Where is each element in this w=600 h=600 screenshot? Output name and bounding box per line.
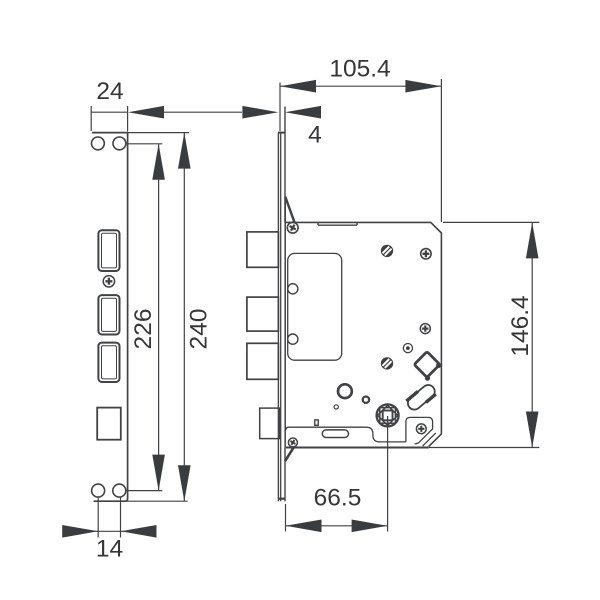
panel circle top (288, 284, 298, 294)
latch slot 1 outer (98, 230, 119, 271)
auxiliary bolt (260, 408, 280, 439)
side faceplate inner line (280, 133, 282, 502)
latch bolt 3 (247, 343, 279, 379)
arrow 66.5 right (352, 520, 388, 533)
arrow 226 up (152, 144, 165, 180)
svg-text:226: 226 (130, 309, 157, 350)
faceplate screw (103, 276, 114, 287)
dim 24 left extension tick (90, 106, 92, 131)
inner panel rounded (288, 253, 342, 360)
spindle follower (377, 404, 399, 426)
latch slot 1 inner (102, 233, 117, 268)
slotted screw top (381, 245, 393, 257)
arrow 4 outside-right (285, 106, 321, 119)
dim 66.5 left extension (285, 504, 287, 532)
dim 24 line (91, 111, 128, 113)
nose triangle edge (284, 197, 286, 223)
arrows side (280, 80, 539, 532)
arrows front (62, 106, 321, 538)
arrow 146.4 down (526, 412, 539, 448)
side faceplate front line (277, 133, 279, 502)
screw hole bottom-right (113, 484, 126, 497)
latch slot 2 outer (98, 295, 119, 334)
arrow 240 down (178, 465, 191, 501)
dim 105.4 left extension (279, 83, 281, 132)
phillips screw bottom-right (416, 424, 426, 434)
svg-text:105.4: 105.4 (329, 55, 390, 82)
arrow 146.4 up (526, 222, 539, 258)
phillips screw bottom-left (288, 438, 297, 447)
svg-text:4: 4 (308, 122, 322, 149)
dim 105.4 right extension (440, 79, 442, 222)
square opening (97, 408, 121, 440)
nose diagonal (latch lever) (285, 197, 294, 223)
side faceplate back line / 4mm extension (284, 107, 286, 223)
faceplate bottom edge (94, 500, 125, 502)
screw hole top-right (113, 137, 126, 150)
svg-text:146.4: 146.4 (507, 295, 534, 356)
horizontal pill slot (322, 430, 348, 438)
tiny circle (334, 405, 338, 409)
dim 14 right extension (120, 497, 122, 537)
phillips screw mid-right (420, 324, 430, 334)
panel circle bottom (288, 334, 298, 344)
arrow 105.4 right (405, 80, 441, 93)
phillips screw top-right (421, 249, 431, 259)
svg-text:240: 240 (186, 309, 213, 350)
lock body left edge (284, 222, 286, 447)
svg-text:24: 24 (96, 78, 123, 105)
inner chamfer echo (423, 433, 436, 446)
dim 226 line (158, 144, 160, 491)
tilted pill (cylinder clip) (404, 381, 439, 414)
dim 105.4 line (280, 85, 441, 87)
faceplate top edge (92, 132, 128, 134)
small thick circle (363, 397, 369, 403)
dim 240 top extension (128, 132, 189, 134)
lever below body (285, 446, 294, 461)
dim 240 bottom extension (94, 500, 188, 502)
latch slot 2 inner (102, 298, 117, 331)
phillips screw top-left (287, 222, 298, 233)
svg-text:66.5: 66.5 (314, 485, 362, 512)
dim 146.4 line (531, 222, 533, 447)
dim 24 right extension (127, 106, 129, 132)
arrow 105.4 left (280, 80, 316, 93)
svg-text:14: 14 (96, 536, 123, 563)
dim 14 line (95, 530, 124, 532)
rivet (403, 344, 412, 353)
top edge notch bar (318, 223, 357, 225)
latch slot 3 outer (98, 343, 119, 382)
latch bolt 1 (247, 232, 279, 267)
latch bolt 2 (247, 297, 279, 331)
arrow 14 outside-right (121, 525, 157, 538)
dim 66.5 line (286, 525, 388, 527)
inner bottom step plate (286, 427, 406, 442)
diamond spindle hole (414, 352, 441, 381)
tiny rect detail (315, 420, 318, 425)
screw hole top-left (92, 137, 105, 150)
side faceplate bottom cap (278, 498, 286, 500)
arrow 14 outside-left (62, 525, 98, 538)
dim 240 line (183, 133, 185, 502)
dim 226 bottom extension (126, 490, 163, 492)
dim 66.5 right extension (follower centreline) (387, 416, 389, 532)
arrow 66.5 left (286, 520, 322, 533)
dim 146.4 bottom extension (429, 447, 539, 449)
thick ring (338, 384, 352, 398)
bottom-right screw plate (406, 417, 433, 444)
arrow 240 up (178, 133, 191, 169)
arrow 24 outside-right (128, 106, 164, 119)
faceplate right edge with small bottom corner (125, 133, 128, 502)
side faceplate back line lower (284, 448, 286, 502)
arrow 4 outside-left (242, 106, 278, 119)
screw hole bottom-left (92, 484, 105, 497)
slotted screw bottom (381, 357, 393, 369)
side faceplate top cap (278, 132, 286, 134)
dim 146.4 top extension (443, 221, 539, 223)
latch slot 3 inner (102, 346, 117, 379)
connector line 24 to 4 (164, 111, 242, 113)
lock body outline (285, 222, 441, 446)
arrow 226 down (152, 455, 165, 491)
dim 14 left extension (97, 497, 99, 537)
lock body bottom edge (286, 447, 429, 449)
dim 226 top extension (126, 143, 163, 145)
